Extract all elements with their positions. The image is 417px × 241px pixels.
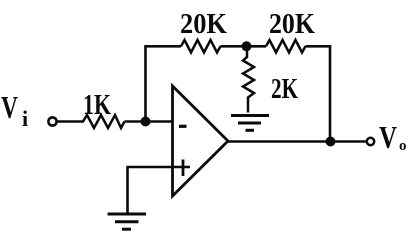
svg-text:20K: 20K	[269, 8, 315, 40]
wire: op-amp output to output terminal	[228, 140, 367, 143]
output terminal (open circle)	[367, 138, 374, 145]
wire: R3 to right vertical, down to output node	[306, 46, 331, 141]
ground (under R4)	[231, 116, 269, 131]
node A junction dot (inverting input node)	[141, 117, 151, 127]
wire: R1 to op-amp inverting input	[125, 120, 173, 123]
op-amp U1	[173, 86, 229, 196]
svg-text:o: o	[399, 138, 407, 154]
svg-text:V: V	[379, 119, 397, 155]
resistor R1 1K	[83, 89, 125, 128]
node Vo label	[379, 119, 407, 155]
svg-text:2K: 2K	[271, 73, 298, 105]
node C junction dot (output node)	[326, 137, 336, 147]
wire: input terminal to R1	[57, 120, 84, 123]
resistor R3 20K	[266, 8, 315, 53]
wire: non-inverting input	[128, 167, 191, 214]
svg-text:20K: 20K	[180, 8, 227, 40]
resistor R2 20K	[180, 8, 227, 53]
svg-text:V: V	[1, 89, 18, 125]
resistor R4 2K	[243, 46, 298, 112]
wire: feedback left vertical	[146, 46, 182, 121]
node Vi label	[1, 89, 28, 131]
svg-text:i: i	[22, 106, 28, 131]
op-amp U1 non-inverting pin mark (+)	[182, 160, 185, 177]
op-amp U1 inverting pin mark (-)	[179, 125, 187, 128]
ground (non-inverting input)	[108, 214, 147, 229]
node B junction dot (T midpoint)	[242, 41, 252, 51]
input terminal (open circle)	[48, 117, 56, 125]
wire: R2 to midpoint node	[221, 45, 267, 48]
